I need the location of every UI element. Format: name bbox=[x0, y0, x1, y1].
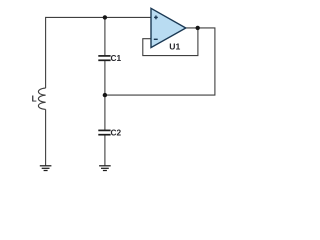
svg-text:L: L bbox=[32, 94, 37, 103]
svg-text:U1: U1 bbox=[169, 42, 180, 52]
svg-text:C2: C2 bbox=[111, 127, 122, 137]
svg-text:C1: C1 bbox=[111, 53, 122, 63]
